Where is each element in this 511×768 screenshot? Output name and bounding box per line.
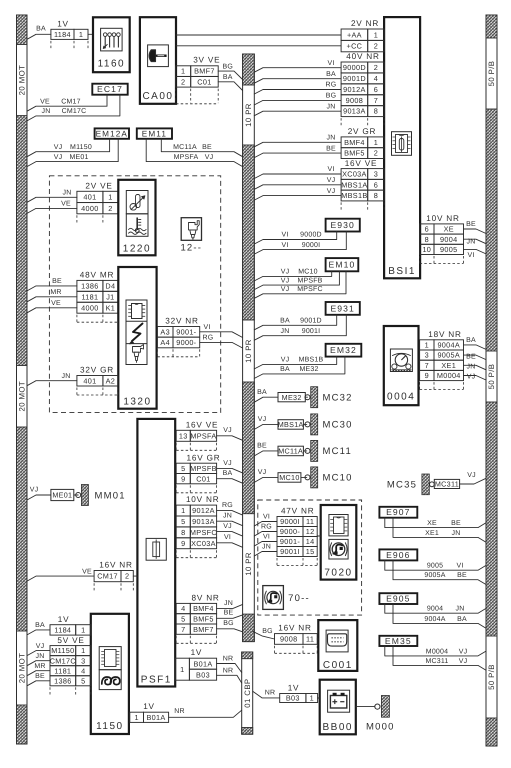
svg-text:C01: C01 [196,474,210,483]
svg-text:2: 2 [125,572,129,581]
svg-text:BE: BE [35,673,45,680]
wire 9005A BE to 50PB [464,353,487,360]
connector label EM32 [326,344,362,357]
wire VJ MBS1B to EM32 [254,357,336,369]
svg-text:9005: 9005 [440,245,457,254]
svg-text:VJ: VJ [258,469,267,476]
svg-text:10 PR: 10 PR [244,339,253,363]
component engine fuse box PSF1 [137,419,175,687]
wire VJ to ME01 [27,487,51,500]
svg-text:MR: MR [50,289,61,296]
svg-text:BE: BE [257,443,267,450]
svg-text:CM17C: CM17C [62,108,87,115]
svg-text:BA: BA [223,470,233,477]
svg-text:ME32: ME32 [299,366,318,373]
wire BMF4 JN to 10PR [217,600,243,609]
ground MC35 [387,474,434,495]
svg-text:4000: 4000 [81,303,98,312]
svg-text:1386: 1386 [54,676,71,685]
svg-text:VJ: VJ [54,154,63,161]
svg-text:3: 3 [81,656,85,665]
svg-text:8V NR: 8V NR [192,594,220,603]
svg-text:BMF4: BMF4 [193,604,214,613]
svg-text:JN: JN [456,606,465,613]
svg-text:VJ: VJ [459,658,468,665]
svg-text:VJ: VJ [467,374,476,381]
component diagnostic socket C001 [318,620,357,671]
connector table 32V GR (1320) [77,366,118,395]
connector table 48V MR (1320) [77,271,118,323]
svg-text:9: 9 [425,371,429,380]
svg-text:7: 7 [374,96,378,105]
wire RG to 40V NR [254,82,341,94]
svg-text:5V VE: 5V VE [57,636,84,645]
svg-text:M0004: M0004 [426,648,448,655]
svg-text:M1150: M1150 [51,646,74,655]
svg-text:J1: J1 [106,292,114,301]
svg-text:MBS1B: MBS1B [299,357,324,364]
wire JN CM17C (1150) [27,653,50,666]
svg-text:EM10: EM10 [329,260,356,270]
svg-text:CM17: CM17 [61,98,80,105]
wire CA00 +CC [176,45,341,47]
svg-text:M1150: M1150 [70,144,92,151]
splice box MBS1A [278,420,304,430]
svg-text:1V: 1V [57,20,69,29]
svg-text:MC35: MC35 [387,480,417,491]
wire BA 9001D to E931 [254,315,336,330]
ground MC30 [305,414,353,435]
connector table 2V GR (BSI1) [341,127,384,159]
wire C01 BA to 10PR [217,470,243,483]
bus bar 20 MOT (left) [17,15,28,744]
svg-text:9000I: 9000I [280,517,300,526]
svg-text:6: 6 [374,180,378,189]
svg-text:10V NR: 10V NR [186,495,219,504]
svg-text:C001: C001 [323,660,353,671]
wire VJ M1150 (1150) [27,643,50,656]
svg-text:CM17C: CM17C [50,656,76,665]
svg-text:BG: BG [223,620,234,627]
wire BE 1386 (1150) [27,673,50,686]
connector table 8V NR (PSF1) [176,594,219,644]
wire BG from CBP to 9008 [253,628,275,639]
svg-text:ME01: ME01 [52,491,72,500]
svg-text:XC03A: XC03A [342,170,367,179]
connector label E930 [326,219,360,232]
svg-text:MC311: MC311 [425,658,448,665]
svg-text:2: 2 [108,204,112,213]
svg-text:15: 15 [306,547,315,556]
wire MC10 link [301,476,307,478]
svg-text:4: 4 [181,604,185,613]
svg-text:9004: 9004 [440,235,457,244]
svg-text:01 CBP: 01 CBP [243,678,252,707]
svg-text:16V VE: 16V VE [186,420,219,429]
svg-text:BA: BA [35,622,45,629]
svg-text:3V VE: 3V VE [193,56,220,65]
svg-text:MC11A: MC11A [278,447,303,456]
svg-text:VJ: VJ [30,487,39,494]
svg-text:1: 1 [81,626,85,635]
connector label EM12A [95,128,129,138]
wire ME32 link [305,396,307,398]
svg-text:C01: C01 [197,77,211,86]
svg-text:MPSFA: MPSFA [190,431,216,440]
svg-text:8: 8 [374,107,378,116]
connector table 16V VE (PSF1) [176,420,218,450]
splice box ME01 [51,489,74,500]
connector table 1V 1184 [51,20,88,49]
svg-text:MBS1A: MBS1A [278,420,304,429]
svg-text:RG: RG [222,502,233,509]
component ignition switch CA00 [140,17,176,104]
dashed enclosure 7020 [258,500,362,615]
svg-text:BG: BG [262,628,273,635]
svg-text:BE: BE [451,520,461,527]
component coolant temp sensor 1220 [118,180,155,256]
svg-text:XE1: XE1 [441,361,456,370]
svg-text:MPSFC: MPSFC [190,528,217,537]
svg-text:EM32: EM32 [330,345,357,355]
svg-text:MC30: MC30 [323,420,353,431]
svg-text:1150: 1150 [96,721,124,732]
splice box MC11A [278,446,303,456]
svg-text:BB00: BB00 [323,722,353,733]
svg-text:+AA: +AA [347,30,362,39]
svg-text:MPSFB: MPSFB [297,277,322,284]
svg-text:40V NR: 40V NR [346,52,379,61]
svg-text:16V NR: 16V NR [99,561,132,570]
svg-text:VJ: VJ [281,357,290,364]
wire XE BE to 50PB [464,221,487,233]
svg-text:32V NR: 32V NR [165,317,198,326]
svg-text:2: 2 [374,63,378,72]
svg-text:18V NR: 18V NR [428,330,461,339]
wire MR 1181 [27,289,77,302]
svg-text:1V: 1V [143,702,155,711]
svg-text:5: 5 [181,517,185,526]
svg-text:2V NR: 2V NR [351,19,379,28]
wire JN to 40V NR [254,103,341,115]
svg-text:MPSFB: MPSFB [190,464,217,473]
wire BA to 1184 [27,26,51,40]
svg-text:VE: VE [51,300,61,307]
svg-text:BMF5: BMF5 [193,614,214,623]
wire 7020 link [317,535,321,537]
svg-text:VI: VI [263,514,270,521]
svg-text:VI: VI [281,232,288,239]
connector table 3V VE (CA00) [176,56,221,104]
svg-text:1: 1 [181,67,185,76]
svg-text:MC32: MC32 [323,393,353,404]
connector table 16V GR (PSF1) [176,453,220,493]
svg-text:A4: A4 [160,338,170,347]
svg-text:1181: 1181 [54,666,71,675]
svg-text:9008: 9008 [346,96,363,105]
bus bar 01 CBP (middle lower) [242,652,253,734]
svg-text:1220: 1220 [123,244,151,255]
wire VJ to 16V VE [254,188,341,200]
svg-text:BE: BE [466,221,476,228]
svg-text:BA: BA [223,74,233,81]
svg-text:9000-: 9000- [176,338,196,347]
svg-text:VJ: VJ [459,648,468,655]
svg-text:13: 13 [179,431,188,440]
svg-text:2V GR: 2V GR [348,127,377,136]
connector table 1V B01A/B03 (PSF1) [175,648,216,680]
svg-text:BA: BA [36,26,46,33]
wire BE 1386 [27,278,77,291]
svg-text:VJ: VJ [223,523,232,530]
wire VJ to MC10 [254,469,278,482]
svg-text:EM12A: EM12A [96,130,128,139]
svg-text:14: 14 [306,537,315,546]
svg-text:BE: BE [224,610,234,617]
wire VJ M1150 to EM12A [27,139,110,157]
wire EM35 MC311 VJ [393,646,486,670]
svg-text:5: 5 [81,676,85,685]
svg-text:BA: BA [466,337,476,344]
wire VI 9000I [254,514,277,526]
wire E906 9005A BE [393,560,486,584]
svg-text:VI: VI [263,534,270,541]
svg-text:8: 8 [425,235,429,244]
connector label E905 [379,593,417,604]
svg-text:5: 5 [181,464,185,473]
svg-text:8: 8 [374,191,378,200]
svg-text:BG: BG [326,93,337,100]
splice box ME32 [278,393,305,402]
svg-text:BA: BA [280,366,290,373]
wire 9004A BA to 50PB [464,337,487,349]
component battery BB00 [320,680,356,735]
wire MC311 VJ to 50PB [460,472,486,484]
wire BMF7 BG to 10PR [218,63,242,79]
wire BA 1184 (1150) [27,622,50,635]
component 70-- (transponder key) [263,586,310,610]
wire JN to 2V GR [254,135,341,147]
svg-text:50 P/B: 50 P/B [487,61,496,87]
wire 9001- VI to 10PR [200,324,243,338]
wire E905 9004A BA [393,604,486,628]
svg-text:VJ: VJ [327,177,336,184]
svg-text:48V MR: 48V MR [80,271,114,280]
wire VE CM17 to EC17 [27,95,107,112]
svg-text:E906: E906 [386,550,410,560]
svg-text:K1: K1 [106,303,116,312]
svg-text:BE: BE [202,144,212,151]
svg-text:9004: 9004 [427,606,443,613]
wire JN 401 [27,190,77,203]
bus bar 50 P/B (right) [486,15,497,746]
splice box MC311 [434,479,459,488]
svg-text:VE: VE [40,98,50,105]
svg-text:1: 1 [134,713,138,722]
svg-text:E930: E930 [330,220,354,230]
wire XE1 JN to 50PB [464,364,487,371]
svg-text:BA: BA [326,71,336,78]
svg-text:XE: XE [427,520,437,527]
svg-text:EC17: EC17 [97,84,123,94]
svg-text:1: 1 [180,665,184,674]
wire MC11A link [303,450,306,452]
svg-text:B03: B03 [286,694,300,703]
wire VI to 16V VE [254,166,341,178]
svg-text:VI: VI [203,324,210,331]
wire ME01 link [74,494,78,496]
svg-text:E931: E931 [330,303,354,313]
wire MPSFA VJ to 10PR [217,427,243,440]
svg-text:1: 1 [79,30,83,39]
svg-text:JN: JN [452,530,461,537]
svg-text:9000D: 9000D [300,232,322,239]
wire JN 9001I [254,544,277,556]
svg-text:BMF7: BMF7 [194,67,215,76]
svg-text:1V: 1V [58,615,70,624]
svg-text:MR: MR [34,663,45,670]
svg-text:BA: BA [457,616,467,623]
svg-text:JN: JN [281,328,290,335]
svg-text:10 PR: 10 PR [244,103,253,127]
svg-text:VI: VI [224,534,231,541]
svg-text:VI: VI [467,252,474,259]
wire BB00 to M000 [356,706,374,708]
svg-text:VJ: VJ [36,643,45,650]
svg-text:VE: VE [61,201,71,208]
svg-text:7: 7 [425,361,429,370]
svg-text:XE: XE [444,225,454,234]
svg-text:9000-: 9000- [280,527,300,536]
svg-text:12: 12 [306,527,315,536]
wire BE to MC11A [254,443,278,456]
svg-text:A2: A2 [106,376,116,385]
svg-text:12--: 12-- [180,243,202,254]
svg-text:9000D: 9000D [343,63,366,72]
connector table 40V NR (BSI1) [341,52,384,126]
component injection ECU 1320 [118,267,156,409]
ground MC32 [305,387,353,408]
svg-text:16V NR: 16V NR [278,624,311,633]
wire B01A NR to CBP [217,656,242,673]
wire JN 401 A2 [27,373,77,386]
svg-text:NR: NR [223,656,234,663]
svg-text:9001D: 9001D [343,74,366,83]
wire B03 NR to CBP [217,668,242,684]
svg-text:EM11: EM11 [142,130,167,139]
svg-text:PSF1: PSF1 [141,674,172,685]
wire VJ MC10 to EM10 [254,269,331,281]
svg-text:VE: VE [82,568,92,575]
svg-text:1: 1 [374,30,378,39]
svg-text:11: 11 [306,635,314,644]
svg-text:NR: NR [265,690,276,697]
svg-text:VJ: VJ [258,416,267,423]
svg-text:9012A: 9012A [343,85,366,94]
svg-text:4000: 4000 [81,204,98,213]
wire E907 XE BE [385,518,486,528]
connector table 1V B01A (1150 out) [130,702,169,722]
wire BMF7 BG to 10PR [217,620,243,632]
wire RG 9000- [254,524,277,536]
svg-text:NR: NR [174,708,185,715]
svg-text:9001I: 9001I [280,547,300,556]
svg-text:70--: 70-- [288,593,310,604]
svg-text:BA: BA [280,318,290,325]
connector label E931 [326,302,360,315]
svg-text:1V: 1V [288,684,300,693]
svg-text:MC10: MC10 [323,473,353,484]
component double relay 1150 [91,614,129,734]
svg-text:NR: NR [223,668,234,675]
svg-text:1386: 1386 [81,281,98,290]
connector table 10V NR (PSF1) [176,495,219,558]
splice box MC10 [278,473,301,483]
svg-text:JN: JN [223,513,232,520]
svg-text:VJ: VJ [281,286,290,293]
svg-text:11: 11 [306,517,314,526]
svg-text:50 P/B: 50 P/B [487,664,496,690]
svg-text:9000I: 9000I [302,242,321,249]
svg-text:9004A: 9004A [437,341,460,350]
wire VJ to MBS1A [254,416,278,429]
svg-text:9001D: 9001D [300,318,322,325]
svg-text:BE: BE [326,145,336,152]
wire VE 4000 [27,201,77,214]
svg-text:3: 3 [425,351,429,360]
connector table 10V NR (BSI1 right) [420,214,464,264]
wire VJ MPSFC to EM10 [254,271,346,298]
svg-text:B03: B03 [196,670,210,679]
svg-text:7020: 7020 [324,568,352,579]
svg-text:1: 1 [108,193,112,202]
svg-text:ME32: ME32 [282,393,302,402]
svg-text:M000: M000 [366,722,395,733]
component immobilizer 7020 [321,505,357,580]
wire 1184 to 1160 [88,33,93,35]
connector table 47V NR (7020) [277,507,317,566]
svg-text:VJ: VJ [205,154,214,161]
connector table 5V VE (1150) [50,636,91,695]
svg-text:VJ: VJ [223,460,232,467]
svg-text:32V GR: 32V GR [80,366,114,375]
svg-text:8: 8 [181,528,185,537]
svg-text:3: 3 [374,170,378,179]
connector table 1V 1184 (1150) [50,615,91,635]
bus bar 10 PR (middle) [243,54,255,642]
wire B01A NR to CBP (bottom) [169,708,242,717]
wire CM17 to PSF1 [133,575,137,577]
wire NR from CBP to B03 [253,690,280,698]
svg-text:VI: VI [281,242,288,249]
wire 9013A JN to 10PR [217,513,243,526]
svg-text:9: 9 [181,539,185,548]
svg-text:20 MOT: 20 MOT [17,381,26,412]
wire M0004 VJ to 50PB [464,374,487,381]
svg-text:VJ: VJ [327,188,336,195]
svg-text:ME01: ME01 [69,154,88,161]
svg-text:1: 1 [310,694,314,703]
wire VE CM17 to PSF1 [27,568,94,581]
wire 9000- RG to 10PR [200,335,243,348]
svg-text:VJ: VJ [223,427,232,434]
wire 9008 to C001 [317,638,318,640]
svg-text:10 PR: 10 PR [244,552,253,576]
svg-text:401: 401 [83,193,96,202]
connector table 16V VE (BSI1) [341,159,384,211]
svg-text:2: 2 [181,77,185,86]
connector table 32V NR (1320) [157,317,199,357]
